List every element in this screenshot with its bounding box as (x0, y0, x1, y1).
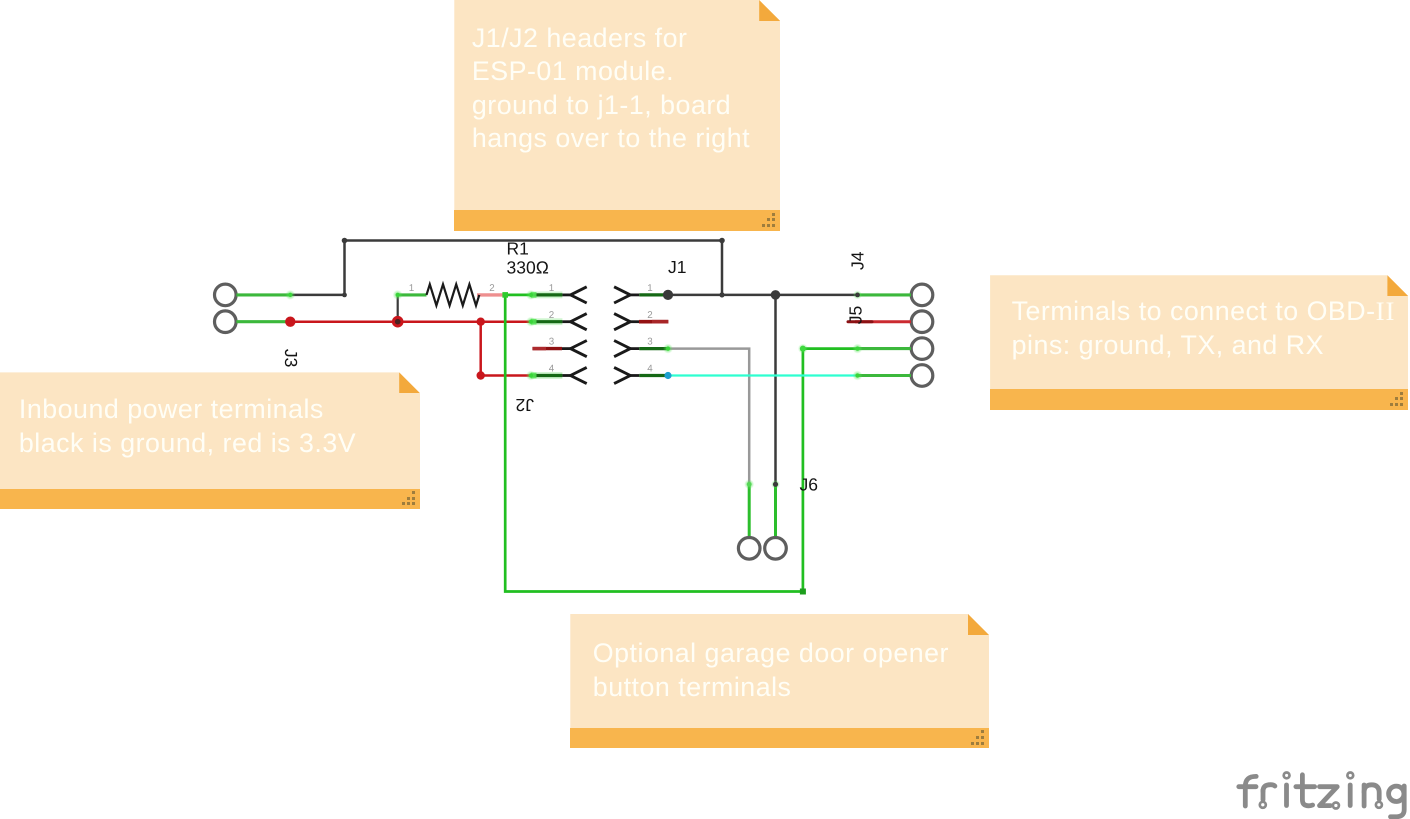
svg-text:4: 4 (647, 364, 653, 375)
svg-text:J4: J4 (848, 251, 868, 270)
svg-text:1: 1 (549, 283, 554, 294)
svg-text:4: 4 (549, 364, 555, 375)
svg-text:3: 3 (549, 337, 555, 348)
svg-text:330Ω: 330Ω (507, 257, 549, 277)
svg-text:3: 3 (647, 337, 653, 348)
svg-text:1: 1 (409, 283, 414, 294)
svg-text:2: 2 (549, 310, 554, 321)
svg-text:R1: R1 (507, 239, 529, 259)
svg-text:J3: J3 (281, 349, 301, 367)
svg-text:1: 1 (647, 283, 652, 294)
svg-text:J1: J1 (668, 257, 686, 277)
svg-text:2: 2 (647, 310, 652, 321)
svg-text:J2: J2 (516, 395, 534, 415)
svg-text:2: 2 (489, 283, 494, 294)
svg-text:J5: J5 (846, 306, 866, 324)
svg-text:J6: J6 (800, 475, 818, 495)
